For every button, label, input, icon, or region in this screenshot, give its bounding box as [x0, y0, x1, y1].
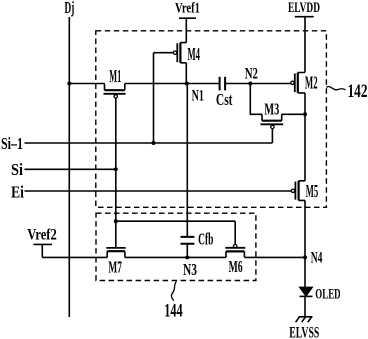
transistor M4	[180, 43, 186, 63]
node M3-M2	[303, 112, 307, 116]
wire Si-1 row	[25, 142, 273, 144]
wire M1 drain to N1	[125, 83, 220, 85]
svg-text:Si–1: Si–1	[1, 134, 23, 153]
capacitor Cfb	[181, 237, 195, 244]
node N4	[303, 255, 307, 259]
svg-text:N3: N3	[183, 260, 197, 279]
wire N1 column down to Cfb	[186, 84, 188, 237]
node N3	[185, 255, 189, 259]
wire gate row to M6	[116, 221, 235, 244]
terminal Vref2	[34, 244, 53, 257]
node Si-1 M4 gate	[152, 141, 156, 145]
svg-text:M1: M1	[109, 66, 121, 86]
wire Ei row to M5 gate	[25, 190, 292, 192]
svg-text:M7: M7	[108, 258, 122, 277]
capacitor Cst	[220, 77, 226, 91]
svg-text:ELVSS: ELVSS	[289, 325, 319, 339]
wire Vref2 to M7	[42, 256, 107, 258]
svg-text:N1: N1	[192, 88, 204, 105]
wire Cfb bottom to N3	[186, 244, 188, 258]
wire M6 to N4	[244, 256, 305, 258]
svg-text:M5: M5	[306, 181, 318, 201]
svg-text:OLED: OLED	[315, 287, 340, 303]
wire M1 gate down through Si to M7 gate	[115, 98, 117, 248]
wire M7 to N3 to M6	[125, 256, 226, 258]
dashed box 144	[96, 213, 256, 280]
node Si M1 gate	[114, 167, 118, 171]
svg-text:144: 144	[164, 302, 182, 322]
wire Si row	[25, 168, 116, 170]
ground ELVSS symbol	[299, 316, 313, 318]
node N1	[185, 82, 189, 86]
terminal ELVDD	[295, 17, 314, 73]
wire Dj to M1 source	[69, 83, 104, 85]
wire M4 gate to Si-1	[154, 53, 174, 143]
node dot Dj-M1	[67, 82, 71, 86]
svg-text:Vref2: Vref2	[27, 227, 56, 244]
transistor M5	[299, 181, 305, 201]
wire Dj vertical bus	[68, 17, 70, 317]
svg-text:N4: N4	[311, 250, 323, 267]
transistor M3	[262, 114, 282, 120]
svg-text:Cst: Cst	[216, 90, 233, 109]
transistor M7	[106, 247, 125, 249]
wire N2 down to M3	[250, 84, 262, 115]
dashed box 142	[96, 31, 327, 208]
wire M3 drain to ELVDD column	[282, 113, 305, 115]
svg-text:M6: M6	[229, 257, 243, 276]
transistor M1	[105, 84, 125, 91]
diode OLED	[300, 287, 312, 296]
svg-text:Cfb: Cfb	[198, 230, 213, 249]
svg-text:ELVDD: ELVDD	[288, 0, 320, 16]
node N2	[248, 82, 252, 86]
svg-text:M2: M2	[305, 73, 318, 93]
svg-text:M3: M3	[264, 100, 279, 119]
squiggle to 144	[172, 282, 177, 301]
svg-text:Dj: Dj	[65, 0, 75, 17]
wire M4 source to N1	[185, 63, 187, 84]
wire M5 source down to N4 and OLED	[304, 200, 306, 287]
wire M3 gate down to Si-1	[271, 129, 273, 144]
svg-text:Si: Si	[11, 160, 23, 179]
wire M2 source down to M5	[304, 93, 306, 181]
svg-text:N2: N2	[245, 66, 258, 83]
wire Cst to N2 to M2 gate	[225, 83, 291, 85]
svg-text:Vref1: Vref1	[175, 0, 200, 16]
svg-text:Ei: Ei	[11, 183, 24, 202]
svg-text:M4: M4	[188, 44, 201, 64]
node gate junction M7	[114, 219, 118, 223]
svg-text:142: 142	[348, 82, 368, 102]
transistor M6	[234, 244, 237, 247]
terminal Vref1	[179, 18, 196, 42]
squiggle to 142	[327, 87, 346, 90]
transistor M2	[298, 73, 305, 93]
